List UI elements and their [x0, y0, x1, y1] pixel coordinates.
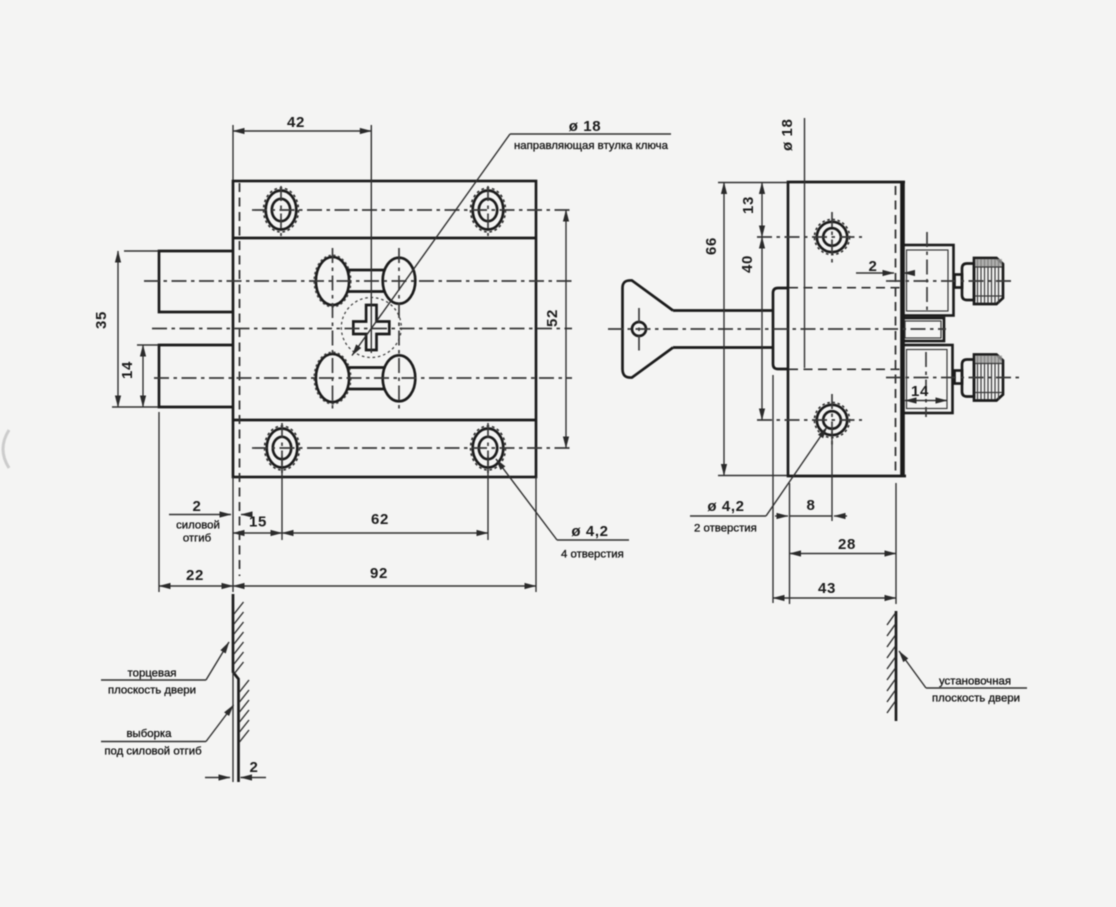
leader 2 силовой отгиб arrow	[169, 514, 252, 516]
dimension 43 label	[818, 580, 836, 597]
dimension 42 extension line at plate corner	[232, 125, 234, 180]
dimension 92 label	[370, 565, 388, 582]
side view case body	[788, 182, 906, 476]
hatching recess (выборка)	[240, 680, 250, 742]
dimension 14 extension line	[137, 344, 158, 346]
dimension 22 label	[186, 567, 204, 584]
label установочная плоскость двери	[932, 676, 1020, 705]
dimension 8 line	[775, 515, 847, 517]
dimension 14 line block	[905, 400, 947, 402]
svg-text:установочная: установочная	[939, 676, 1011, 688]
label ø18 side view rotated	[779, 119, 796, 151]
guide bushing dashed circle ø18	[341, 298, 401, 358]
svg-text:плоскость двери: плоскость двери	[108, 685, 196, 697]
label торцевая плоскость двери	[108, 668, 196, 697]
leader установочная плоскость двери	[899, 651, 1027, 688]
dimension 62 line	[282, 532, 488, 534]
leader торцевая плоскость двери	[101, 642, 229, 680]
thumb knob bottom stem	[955, 371, 963, 384]
centerline bottom knob axis	[886, 377, 1019, 379]
extension lines 8 28 43	[773, 375, 896, 604]
vertical centerline hole top-right	[487, 186, 489, 236]
svg-text:ø 4,2: ø 4,2	[707, 498, 744, 515]
lower bolt front view	[159, 345, 233, 407]
mounting hole bottom-right	[471, 426, 506, 470]
svg-text:направляющая втулка ключа: направляющая втулка ключа	[514, 140, 669, 152]
svg-text:52: 52	[544, 309, 561, 327]
svg-text:42: 42	[287, 114, 305, 131]
hatching door end plane	[234, 602, 244, 674]
vertical centerline hole bottom-left	[281, 423, 283, 473]
side view mounting hole bottom	[814, 402, 849, 437]
dimension 40 label	[739, 255, 756, 273]
hidden lines ø18 key passage	[789, 288, 900, 370]
hatching door mounting plane	[887, 613, 896, 713]
door end plane line (торцевая плоскость)	[233, 594, 239, 782]
key shaft	[673, 311, 773, 348]
dimension 14 line	[142, 345, 144, 407]
dimension 62 label	[371, 511, 389, 528]
dimension 35 extension lines	[112, 251, 158, 407]
label 2 recess	[250, 759, 259, 776]
dimension 66 line	[723, 183, 725, 476]
key bow outline	[623, 280, 674, 377]
vertical centerline hole bottom-right	[487, 423, 489, 473]
dimension 28 line	[790, 553, 897, 555]
dimension 15 label	[249, 514, 267, 531]
centerline top hole side view	[757, 212, 862, 263]
svg-text:35: 35	[93, 311, 110, 329]
axis line through key cross (42 extension)	[370, 125, 372, 353]
label ø4,2 2 отверстия	[694, 498, 757, 535]
svg-text:13: 13	[740, 196, 757, 214]
dimension 42 label	[287, 114, 305, 131]
bolt tail tab middle	[902, 318, 944, 341]
key cross aperture	[353, 305, 389, 350]
svg-text:торцевая: торцевая	[128, 668, 177, 680]
mounting hole top-left	[264, 188, 299, 232]
mounting hole top-right	[471, 188, 506, 232]
svg-text:22: 22	[186, 567, 204, 584]
dimension 22 line	[159, 585, 233, 587]
ø18 axis line side view	[804, 118, 806, 368]
dimension 66 extension lines	[718, 183, 787, 476]
block vertical centerline top	[926, 232, 928, 310]
watermark arc fragment left edge	[3, 430, 9, 468]
svg-text:ø 18: ø 18	[569, 118, 601, 135]
thumb knob bottom knurled cap	[974, 355, 1003, 401]
leader ø18 bushing	[352, 134, 671, 356]
centerline top holes row	[252, 209, 571, 211]
dimension 92 line	[233, 585, 536, 587]
leader dimension 2 face plate side view	[856, 272, 913, 274]
key bow hole vertical centerline	[638, 308, 640, 351]
thumb knob top collar	[962, 264, 974, 301]
svg-text:15: 15	[249, 514, 267, 531]
leader ø4,2 4 отверстия	[496, 459, 629, 540]
leader выборка под силовой отгиб	[101, 705, 234, 742]
key bushing flange	[773, 288, 788, 369]
label 2 силовой отгиб	[176, 498, 220, 545]
block vertical centerline bottom	[925, 352, 927, 417]
svg-text:8: 8	[807, 497, 816, 514]
door mounting plane line	[895, 611, 898, 721]
lower keyhole slot	[314, 352, 415, 404]
dimension 14 label block	[911, 383, 929, 400]
side view mounting hole top	[814, 219, 849, 254]
vertical centerline right keyhole circles	[398, 248, 400, 411]
svg-text:92: 92	[370, 565, 388, 582]
svg-text:43: 43	[818, 580, 836, 597]
svg-text:62: 62	[371, 511, 389, 528]
front plate lower fold line	[233, 419, 536, 422]
dimension 52 line	[565, 210, 567, 448]
svg-text:14: 14	[911, 383, 929, 400]
extension lines bottom hole spacing	[233, 456, 488, 592]
leader ø4,2 2 отверстия	[690, 427, 827, 516]
svg-text:отгиб: отгиб	[183, 533, 212, 545]
vertical centerline hole top-left	[280, 186, 282, 236]
centerline lower bolt axis	[154, 377, 572, 379]
label выборка под силовой отгиб	[104, 728, 202, 758]
svg-text:ø 18: ø 18	[779, 119, 796, 151]
mounting hole bottom-left	[265, 426, 300, 470]
label ø4,2 4 отверстия	[561, 523, 624, 561]
svg-text:силовой: силовой	[176, 520, 220, 532]
vertical centerline left keyhole circles	[332, 248, 334, 411]
svg-text:выборка: выборка	[126, 728, 172, 740]
dimension 35 label	[93, 311, 110, 329]
dimension 43 line	[773, 597, 896, 599]
svg-text:40: 40	[739, 255, 756, 273]
dimension 13 line	[761, 183, 763, 238]
dimension 40 line	[761, 237, 763, 420]
hidden line face plate side view	[895, 186, 897, 473]
svg-text:2: 2	[869, 258, 878, 275]
bolt housing block top	[902, 245, 954, 316]
svg-text:плоскость двери: плоскость двери	[932, 693, 1020, 705]
dimension 13 label	[740, 196, 757, 214]
dimension 8 label	[807, 497, 816, 514]
svg-text:под силовой отгиб: под силовой отгиб	[104, 746, 202, 758]
bolt housing block bottom	[902, 345, 953, 413]
side view face plate edge thick band	[900, 182, 905, 476]
main key axis centerline side view	[608, 328, 946, 330]
svg-text:4 отверстия: 4 отверстия	[561, 549, 624, 561]
centerline bottom holes row	[252, 447, 571, 449]
svg-text:2: 2	[193, 498, 202, 515]
dimension 42 line	[233, 130, 371, 132]
centerline main key axis front	[152, 328, 572, 330]
svg-text:2: 2	[250, 759, 259, 776]
dimension 28 label	[838, 536, 856, 553]
dimension 66 label	[703, 237, 720, 255]
key bow hole	[632, 322, 646, 336]
label 2 side view	[869, 258, 878, 275]
dimension 52 label	[544, 309, 561, 327]
centerline top knob axis	[886, 280, 1012, 282]
upper keyhole slot	[314, 255, 415, 307]
centerline upper bolt axis	[144, 280, 572, 282]
hidden line of bent face plate (силовой отгиб)	[239, 183, 241, 576]
svg-text:ø 4,2: ø 4,2	[571, 523, 608, 540]
label ø18 направляющая втулка ключа	[514, 118, 669, 152]
thumb knob bottom collar	[962, 360, 974, 397]
extension line plate right corner	[535, 477, 537, 592]
svg-text:28: 28	[838, 536, 856, 553]
extension line left bolt end	[158, 412, 160, 592]
front view lock plate body	[233, 181, 536, 477]
svg-text:2 отверстия: 2 отверстия	[694, 523, 757, 535]
dimension 35 line	[117, 251, 119, 407]
svg-text:14: 14	[119, 361, 136, 379]
dimension 14 label (front)	[119, 361, 136, 379]
centerline bottom hole side view	[757, 394, 862, 446]
dimension 15 line	[233, 532, 282, 534]
svg-text:66: 66	[703, 237, 720, 255]
thumb knob top knurled cap	[974, 258, 1003, 304]
thumb knob top stem	[955, 275, 963, 288]
upper bolt (deadbolt) front view	[159, 251, 233, 312]
front plate upper fold line	[233, 237, 536, 240]
dimension 2 recess depth	[205, 777, 266, 779]
